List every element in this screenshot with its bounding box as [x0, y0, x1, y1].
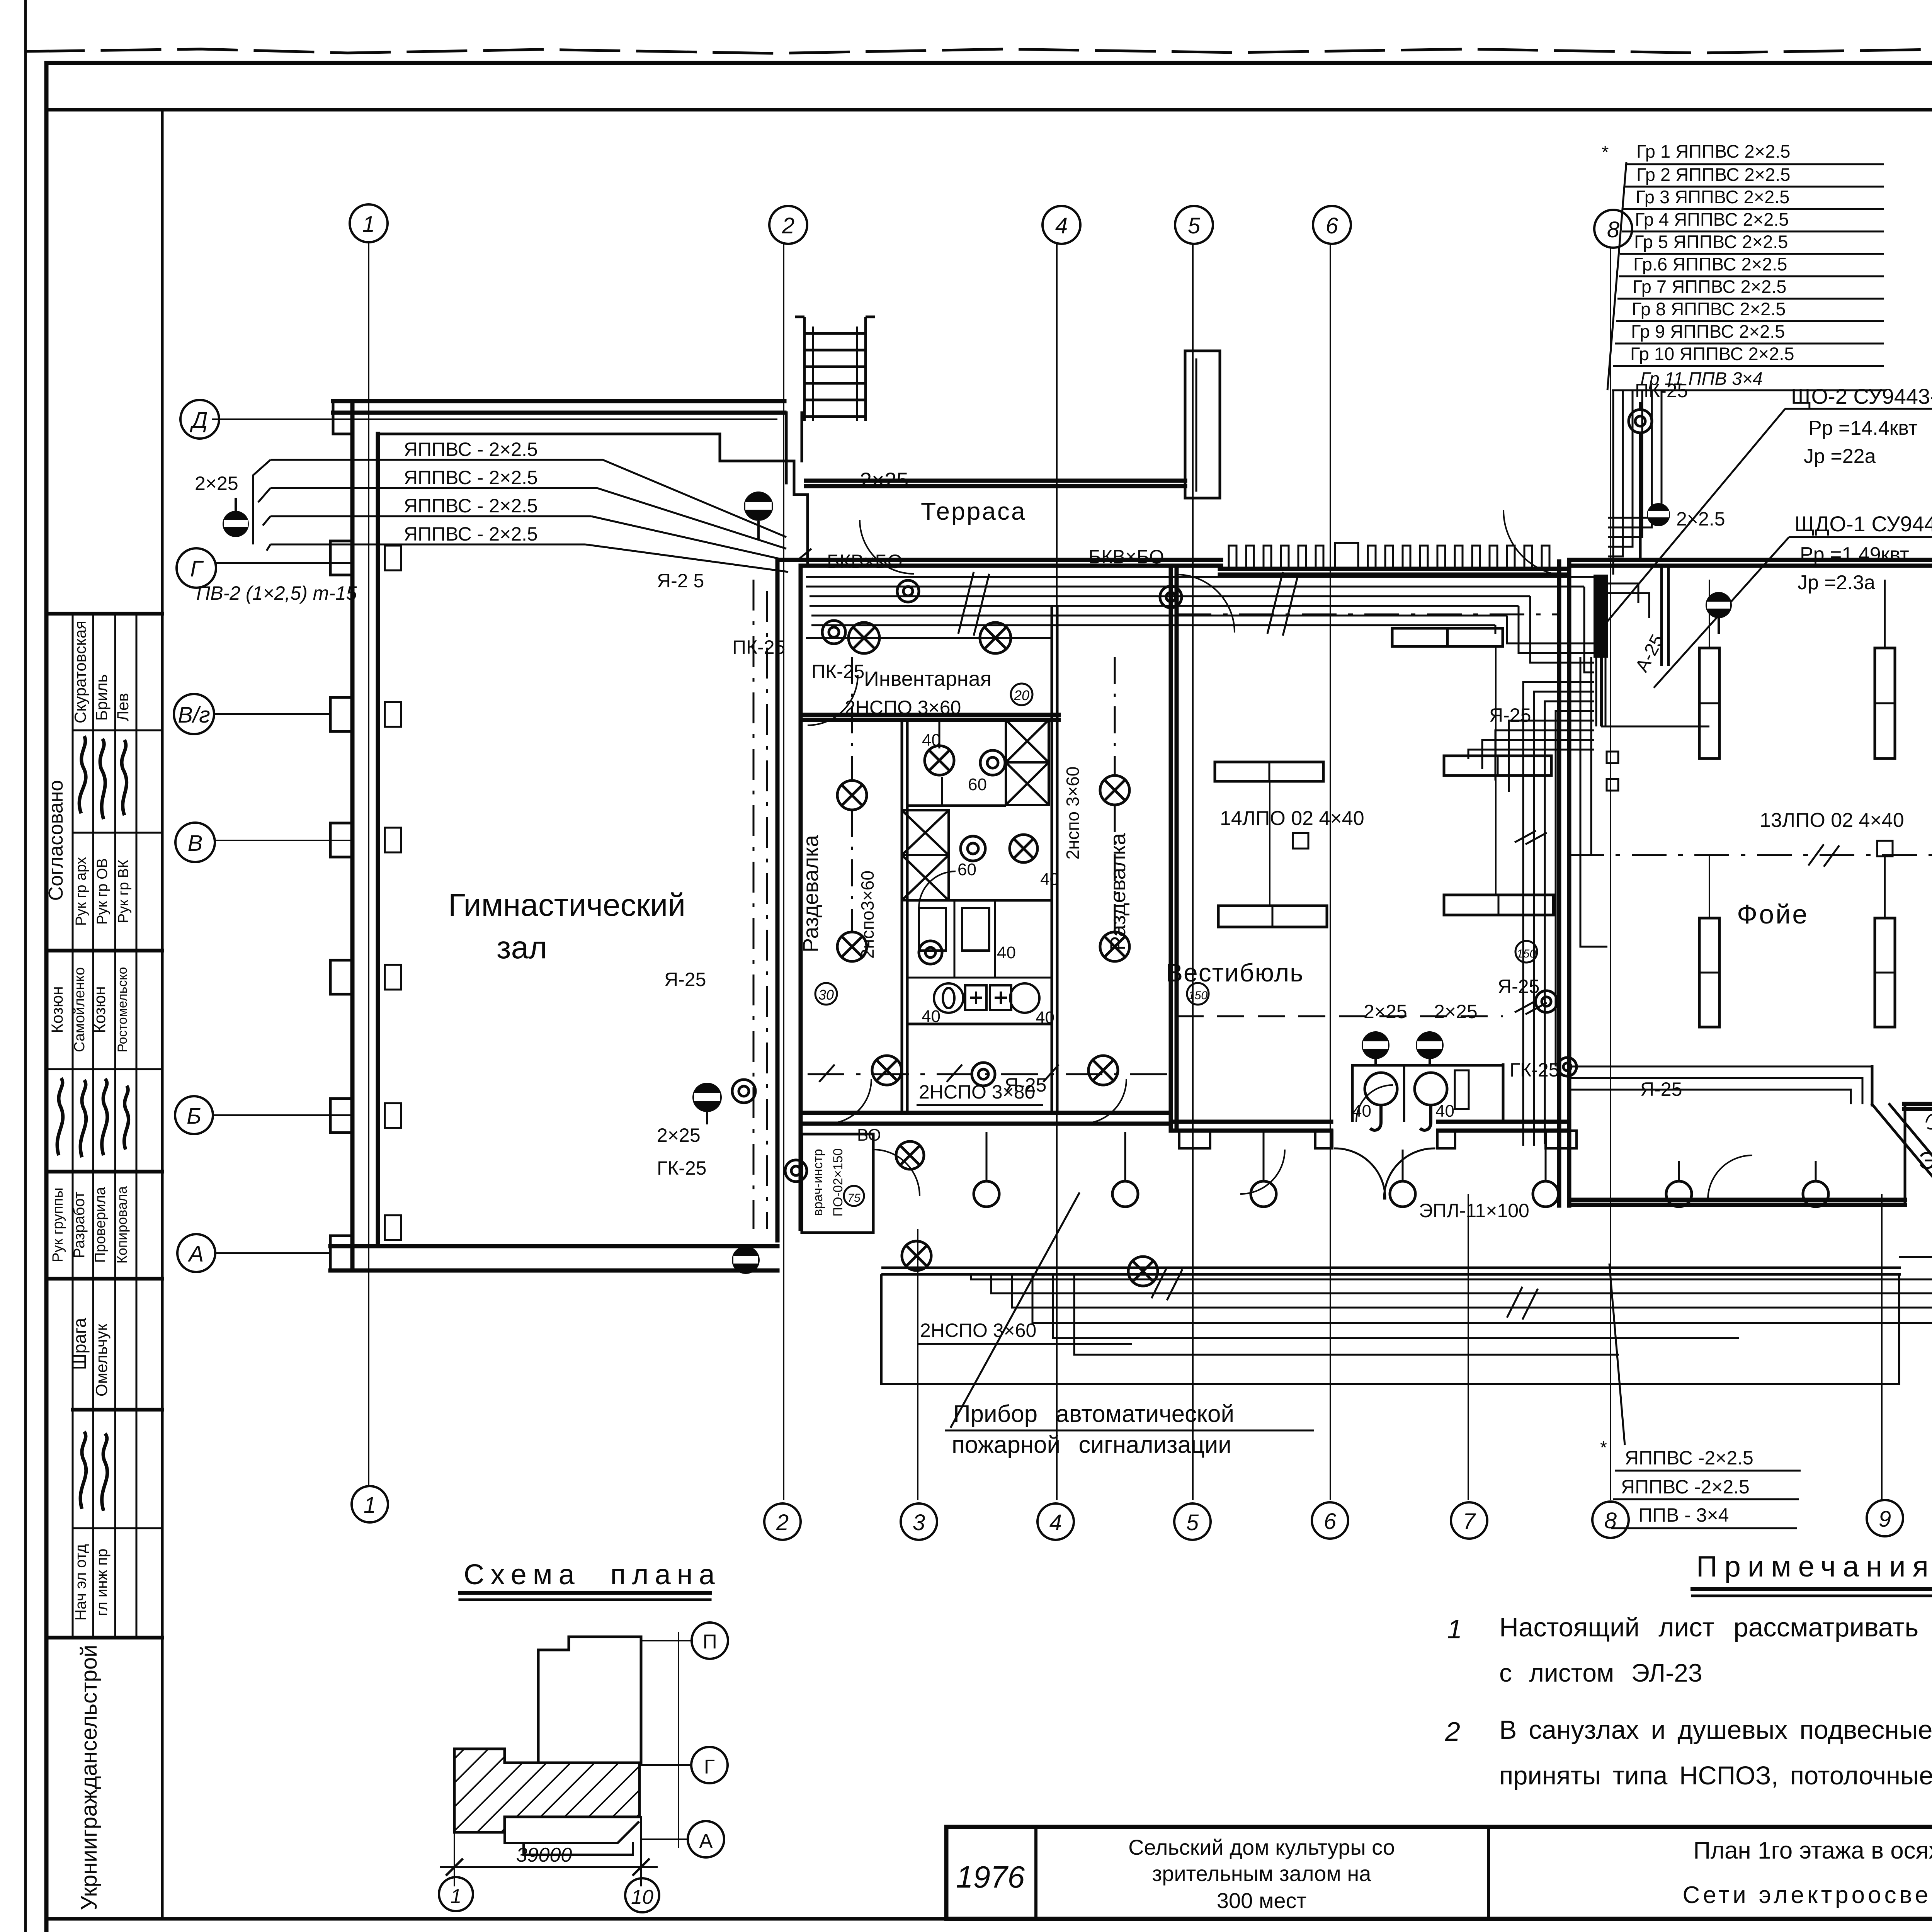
svg-text:приняты типа НСПОЗ, потолоч: приняты типа НСПОЗ, потолочные типа БУН-… — [1499, 1761, 1932, 1790]
svg-text:Бриль: Бриль — [92, 674, 111, 721]
estrada room north wall — [1904, 1102, 1932, 1106]
svg-text:ГК-25: ГК-25 — [657, 1157, 706, 1179]
sidebar table horizontals — [46, 612, 162, 616]
svg-text:Рр =1.49квт: Рр =1.49квт — [1800, 543, 1909, 566]
svg-text:Прибор автоматической: Прибор автоматической — [953, 1401, 1234, 1427]
svg-text:300 мест: 300 мест — [1217, 1888, 1306, 1913]
vestibule west wall — [1169, 569, 1173, 1131]
gym east dash-dot risers — [753, 580, 755, 1229]
svg-text:2: 2 — [782, 213, 794, 238]
svg-text:9: 9 — [1879, 1507, 1891, 1532]
vrach room bottom-left — [802, 1134, 920, 1233]
svg-text:Гр 4 ЯППВС 2×2.5: Гр 4 ЯППВС 2×2.5 — [1635, 209, 1789, 230]
svg-text:А: А — [699, 1830, 713, 1852]
label leader 2x25 top-left gym — [796, 549, 811, 561]
svg-text:Копировала: Копировала — [114, 1186, 130, 1264]
svg-text:8: 8 — [1604, 1508, 1617, 1533]
svg-text:Разработ: Разработ — [71, 1192, 88, 1259]
svg-text:Jр =22а: Jр =22а — [1804, 445, 1876, 468]
riser slope line — [1607, 162, 1626, 390]
axis A leader left — [216, 1252, 332, 1254]
svg-text:В: В — [188, 831, 203, 856]
gym south wall double — [330, 1244, 777, 1248]
feeder drop at gym west — [253, 460, 270, 551]
vestibule fluorescent row 3 — [1218, 906, 1327, 927]
ShchDO-1 leader line — [1654, 537, 1789, 688]
svg-text:ЯППВС - 2×2.5: ЯППВС - 2×2.5 — [404, 439, 538, 460]
svg-text:Нач эл отд: Нач эл отд — [72, 1544, 89, 1621]
svg-text:Козюн: Козюн — [90, 986, 109, 1033]
svg-text:1: 1 — [362, 212, 375, 237]
svg-text:БКВ×БО: БКВ×БО — [827, 551, 903, 572]
axis G leader left — [216, 562, 352, 564]
axis circle D left — [180, 400, 219, 439]
svg-text:Д: Д — [190, 408, 208, 433]
svg-text:зрительным залом на: зрительным залом на — [1152, 1861, 1372, 1886]
svg-text:Фойе: Фойе — [1737, 899, 1809, 929]
svg-text:Рук гр арх: Рук гр арх — [73, 857, 89, 926]
gym west wall double — [350, 401, 355, 1270]
axis circle A left — [177, 1234, 215, 1272]
steps outline outer — [881, 1274, 1899, 1384]
svg-text:14ЛПО 02 4×40: 14ЛПО 02 4×40 — [1220, 807, 1364, 830]
svg-text:39000: 39000 — [516, 1844, 572, 1866]
svg-text:40: 40 — [997, 943, 1016, 962]
estrada diagonal wall double — [1872, 1104, 1932, 1249]
gym feeder lines (4 x YAPPVS) — [270, 459, 603, 461]
foyer fixture risers — [1709, 580, 1710, 648]
svg-text:зал: зал — [497, 930, 547, 965]
gym west pilaster row — [330, 541, 352, 575]
switch symbols: filled circle with stripe — [223, 492, 1932, 1274]
axis 3 line — [917, 1229, 918, 1500]
svg-text:2×25: 2×25 — [1364, 1001, 1407, 1022]
svg-text:Шрага: Шрага — [70, 1318, 90, 1370]
bundle corners into panel — [1495, 587, 1594, 672]
svg-text:2НСПО 3×60: 2НСПО 3×60 — [845, 697, 961, 718]
svg-text:Рук группы: Рук группы — [50, 1187, 66, 1262]
foyer mid dash-dot — [1569, 854, 1932, 856]
door arcs south wall — [827, 1079, 1932, 1200]
porch columns — [974, 1132, 1828, 1207]
svg-text:20: 20 — [1014, 687, 1029, 703]
svg-text:Козюн: Козюн — [48, 986, 66, 1033]
sidebar rotated labels — [45, 621, 132, 1910]
axis D leader — [212, 418, 777, 420]
svg-text:ППВ - 3×4: ППВ - 3×4 — [1638, 1504, 1729, 1526]
svg-text:В санузлах и душевых подвесн: В санузлах и душевых подвесные светильни… — [1499, 1715, 1932, 1745]
PK-25 socket symbol — [1629, 402, 1652, 561]
svg-text:60: 60 — [968, 775, 987, 794]
svg-text:6: 6 — [1324, 1509, 1337, 1534]
axis V leader left — [215, 840, 352, 841]
bottom porch steps — [881, 1248, 1932, 1384]
frame inner top line — [46, 108, 1932, 112]
svg-text:Я-2 5: Я-2 5 — [657, 570, 704, 592]
estrada feed bundle — [1569, 1066, 1872, 1104]
svg-text:Терраса: Терраса — [921, 497, 1026, 525]
lamp symbols: circle with X (ceiling) — [837, 622, 1158, 1286]
svg-text:Раздевалка: Раздевалка — [798, 835, 823, 952]
svg-text:*: * — [1602, 142, 1609, 162]
svg-text:ЯППВС - 2×2.5: ЯППВС - 2×2.5 — [404, 523, 538, 545]
key plan dimension line — [454, 1832, 455, 1886]
svg-text:Рук гр ОВ: Рук гр ОВ — [94, 858, 111, 925]
svg-text:Рук гр ВК: Рук гр ВК — [116, 860, 132, 923]
svg-text:гл инж пр: гл инж пр — [94, 1549, 111, 1616]
svg-text:Я-25: Я-25 — [1005, 1074, 1046, 1096]
key plan leaders — [641, 1640, 692, 1641]
svg-text:5: 5 — [1188, 213, 1201, 238]
group list underlines — [1626, 163, 1884, 165]
sheet top torn edge dashed line — [26, 49, 1932, 54]
axis circle G left — [177, 548, 216, 588]
axis 5 line — [1192, 243, 1194, 1500]
axis circle 4 top — [1043, 206, 1080, 244]
axis 1 line — [368, 243, 369, 1487]
door arcs north area — [808, 510, 1932, 725]
svg-text:60: 60 — [957, 860, 976, 879]
svg-text:Примечания: Примечания — [1696, 1550, 1932, 1583]
svg-text:40: 40 — [922, 731, 941, 750]
north inner wall line — [378, 434, 808, 566]
changing room left east wall — [901, 720, 903, 1113]
svg-text:Гр 3 ЯППВС 2×2.5: Гр 3 ЯППВС 2×2.5 — [1636, 187, 1789, 207]
key plan porch steps — [505, 1822, 638, 1855]
svg-text:П: П — [702, 1631, 717, 1653]
axis circle 6 top — [1313, 206, 1351, 244]
svg-text:А: А — [188, 1242, 204, 1267]
svg-text:2×2.5: 2×2.5 — [1676, 508, 1725, 530]
changing room dash-dot risers — [851, 810, 853, 932]
axis circle 9 bottom — [1867, 1500, 1903, 1536]
svg-text:Гр 5 ЯППВС 2×2.5: Гр 5 ЯППВС 2×2.5 — [1634, 231, 1788, 252]
svg-text:Я-25: Я-25 — [1498, 976, 1539, 997]
svg-text:Я-25: Я-25 — [1489, 704, 1531, 726]
svg-text:150: 150 — [1188, 989, 1207, 1002]
axis circle 8 bottom — [1592, 1502, 1629, 1538]
pendant lamps in wc: open circles with hook — [1365, 1073, 1447, 1130]
bottom riser stack leader — [1609, 1264, 1625, 1445]
building north wall at axis D — [333, 399, 784, 403]
svg-text:Г: Г — [190, 556, 204, 582]
wc rooms near vestibule — [1352, 1063, 1503, 1122]
svg-text:13ЛПО 02 4×40: 13ЛПО 02 4×40 — [1760, 809, 1904, 832]
axis 9 line — [1881, 1194, 1883, 1500]
vestibule fixture riser — [1495, 646, 1497, 756]
svg-text:Проверила: Проверила — [92, 1187, 109, 1263]
axis circle V left — [175, 823, 215, 862]
svg-text:ПК-25: ПК-25 — [732, 636, 785, 658]
shower inner wall 1 — [907, 804, 1005, 807]
estrada west link wall — [1904, 1106, 1906, 1205]
foyer center square — [1877, 841, 1893, 856]
axis circle 6 bottom — [1312, 1502, 1348, 1539]
svg-text:5: 5 — [1186, 1510, 1199, 1535]
shower risers — [939, 720, 942, 806]
terrace west link wall — [785, 413, 788, 483]
sheet outer left edge line — [24, 0, 27, 1932]
switch 2x2.5 near panel — [1647, 503, 1670, 526]
svg-text:40: 40 — [1435, 1102, 1454, 1121]
sidebar right vertical line — [161, 110, 164, 1919]
vestibule center square — [1293, 833, 1308, 849]
svg-text:1: 1 — [1447, 1614, 1462, 1644]
svg-text:2НСПО 3×60: 2НСПО 3×60 — [920, 1320, 1036, 1341]
terrace pier wall — [1185, 351, 1220, 498]
svg-text:30: 30 — [818, 987, 834, 1003]
vestibule south wall — [1171, 1120, 1331, 1124]
riser hatch marks — [1515, 831, 1547, 1014]
svg-text:2: 2 — [1445, 1716, 1460, 1747]
shower inner wall 4 — [907, 977, 1052, 979]
svg-text:40: 40 — [922, 1007, 940, 1026]
svg-text:Ростомельско: Ростомельско — [115, 967, 130, 1052]
key plan auditorium rect — [538, 1637, 641, 1763]
key plan right axis line — [678, 1633, 679, 1847]
numbered circles — [815, 684, 1932, 1206]
svg-text:ЩО-2 СУ9443-12: ЩО-2 СУ9443-12 — [1791, 384, 1932, 408]
cloakroom partition — [1660, 566, 1663, 665]
ShchO-2 leader line — [1604, 409, 1785, 626]
svg-text:1: 1 — [364, 1493, 376, 1518]
svg-text:Инвентарная: Инвентарная — [864, 667, 992, 690]
svg-text:ЯППВС - 2×2.5: ЯППВС - 2×2.5 — [404, 467, 538, 488]
svg-text:Гр 2 ЯППВС 2×2.5: Гр 2 ЯППВС 2×2.5 — [1636, 164, 1790, 185]
svg-text:Раздевалка: Раздевалка — [1105, 833, 1130, 951]
vestibule east wall double — [1557, 561, 1561, 1206]
central block west wall double — [776, 561, 780, 1240]
entrance door leaves — [1335, 1148, 1385, 1199]
wall boxes on foyer west wall — [1607, 752, 1618, 763]
portico edge lines — [881, 1268, 1901, 1274]
vestibule fluorescent row 2 — [1215, 762, 1323, 781]
svg-text:Гр 1 ЯППВС 2×2.5: Гр 1 ЯППВС 2×2.5 — [1636, 141, 1790, 162]
central block south wall — [801, 1111, 1171, 1115]
svg-text:Гр 10 ЯППВС 2×2.5: Гр 10 ЯППВС 2×2.5 — [1630, 344, 1794, 364]
svg-text:ГК-25: ГК-25 — [1510, 1059, 1559, 1081]
wire count ticks — [958, 572, 1298, 636]
terrace stairs — [795, 317, 875, 421]
underline for 2NSPO 3x80 bottom — [917, 1104, 1043, 1106]
svg-text:3: 3 — [913, 1510, 925, 1535]
svg-text:Гр 9 ЯППВС 2×2.5: Гр 9 ЯППВС 2×2.5 — [1631, 321, 1785, 342]
vestibule east riser — [1523, 807, 1556, 1146]
svg-text:40: 40 — [1036, 1008, 1054, 1027]
vestibule fluorescent row 1 — [1392, 628, 1447, 646]
svg-text:ЯППВС -2×2.5: ЯППВС -2×2.5 — [1625, 1447, 1753, 1469]
riser above panel from group list — [1608, 390, 1662, 575]
axis 4 line — [1056, 243, 1058, 1500]
axis circle 5 top — [1175, 206, 1213, 244]
svg-text:2×25: 2×25 — [860, 468, 908, 492]
wc cubicles — [919, 871, 1039, 1013]
svg-text:Согласовано: Согласовано — [45, 780, 67, 901]
axis 6 line — [1330, 243, 1331, 1500]
svg-text:ПВ-2 (1×2,5) т-15: ПВ-2 (1×2,5) т-15 — [196, 582, 357, 604]
ShchO-2 panel bar — [1594, 575, 1608, 658]
svg-text:Я-25: Я-25 — [664, 969, 706, 990]
corridor top lamps wire — [806, 637, 1052, 639]
svg-text:План 1го этажа в осях „А“-„Г“: План 1го этажа в осях „А“-„Г“ — [1693, 1837, 1932, 1864]
inventory room north wall — [777, 558, 1221, 562]
svg-text:1976: 1976 — [956, 1860, 1025, 1894]
key plan axis circles П Г А — [692, 1622, 728, 1659]
axis circle V/g left — [174, 694, 214, 734]
sconce symbols: double circle — [732, 580, 1932, 1182]
svg-text:Рр =14.4квт: Рр =14.4квт — [1808, 417, 1918, 439]
sidebar table verticals — [72, 614, 74, 1638]
foyer north wall — [1569, 558, 1932, 562]
svg-text:Б: Б — [187, 1104, 201, 1129]
panel fan left-down — [1523, 682, 1594, 807]
svg-text:Гр 7 ЯППВС 2×2.5: Гр 7 ЯППВС 2×2.5 — [1633, 276, 1786, 297]
svg-text:*: * — [1600, 1437, 1607, 1458]
shower inner wall 2 — [907, 899, 1052, 902]
title block outline — [946, 1827, 1932, 1919]
svg-text:Jр =2.3а: Jр =2.3а — [1798, 571, 1875, 594]
fire alarm leader — [951, 1192, 1080, 1428]
svg-text:6: 6 — [1326, 213, 1338, 238]
gym feeder fan to terrace corner — [585, 460, 788, 572]
south corridor lamps wire — [808, 1073, 1171, 1075]
svg-text:2×25: 2×25 — [1434, 1001, 1478, 1022]
south bundle lines — [971, 1249, 1932, 1279]
shower X-boxes — [902, 720, 1049, 900]
svg-text:Г: Г — [704, 1756, 715, 1778]
axis circle 2 top — [769, 206, 807, 244]
axis 7 line — [1468, 1194, 1469, 1500]
foyer riser right of wall — [1580, 657, 1709, 947]
svg-text:150: 150 — [1517, 947, 1536, 960]
sidebar signatures scribbles — [57, 736, 129, 1511]
group 11 underline — [1612, 389, 1886, 391]
corridor bundle along vestibule north — [806, 576, 1594, 578]
svg-text:10: 10 — [631, 1886, 653, 1908]
entrance door jambs — [1315, 1131, 1332, 1148]
svg-text:4: 4 — [1049, 1510, 1062, 1535]
svg-text:2нспо 3×60: 2нспо 3×60 — [1063, 767, 1083, 860]
vestibule lamp feed dash — [1177, 1015, 1503, 1017]
foyer fluorescent fixtures row 1 — [1699, 648, 1719, 759]
axis 2 line — [783, 243, 784, 1500]
svg-text:ЩДО-1 СУ9441-14: ЩДО-1 СУ9441-14 — [1794, 512, 1932, 536]
frame inner bottom line — [46, 1917, 1932, 1921]
gym west wall radiator marks — [385, 546, 401, 570]
foyer south wall — [1569, 1198, 1905, 1202]
svg-text:БКВ×БО: БКВ×БО — [1088, 546, 1164, 568]
terrace west wall — [801, 413, 803, 461]
axis circle 3 bottom — [901, 1503, 937, 1540]
svg-text:1: 1 — [451, 1885, 462, 1908]
svg-text:ПК-25: ПК-25 — [811, 661, 864, 682]
axis V/g leader — [214, 713, 332, 715]
svg-text:4: 4 — [1055, 213, 1068, 238]
key plan bottom axis circles — [439, 1877, 473, 1911]
svg-text:40: 40 — [1352, 1102, 1371, 1121]
svg-text:В/г: В/г — [178, 702, 210, 728]
svg-text:7: 7 — [1463, 1509, 1476, 1534]
panel outgoing verticals — [1596, 390, 1662, 726]
axis circle 1 top — [350, 204, 388, 242]
shower inner wall 3 — [907, 1023, 1052, 1026]
axis circle 7 bottom — [1451, 1502, 1487, 1539]
axis B leader left — [214, 1114, 352, 1116]
terrace balustrade row — [1229, 543, 1549, 568]
axis circle 8 top — [1594, 210, 1632, 248]
key plan hatched block — [454, 1749, 639, 1832]
terrace north edge double — [806, 479, 1185, 483]
svg-text:ПО-02×150: ПО-02×150 — [831, 1148, 845, 1217]
svg-text:Схема плана: Схема плана — [464, 1558, 721, 1590]
svg-text:Эстрада -: Эстрада - — [1918, 1148, 1932, 1174]
svg-text:ВО: ВО — [857, 1126, 881, 1145]
axis circle B left — [175, 1096, 213, 1134]
svg-text:Самойленко: Самойленко — [71, 967, 88, 1052]
svg-text:2нспо3×60: 2нспо3×60 — [857, 871, 878, 959]
svg-text:8: 8 — [1607, 217, 1619, 242]
svg-text:2×25: 2×25 — [195, 473, 238, 494]
svg-text:пожарной сигнализации: пожарной сигнализации — [952, 1432, 1231, 1458]
vestibule north wall — [1220, 573, 1569, 577]
axis circle 5 bottom — [1174, 1503, 1211, 1540]
inventory room south wall — [801, 713, 1059, 717]
svg-text:Лев: Лев — [114, 693, 132, 721]
axis circle 2 bottom — [764, 1503, 801, 1540]
svg-text:ЯППВС -2×2.5: ЯППВС -2×2.5 — [1621, 1476, 1750, 1498]
foyer fluorescent fixtures row 2 — [1699, 918, 1719, 1027]
svg-text:75: 75 — [847, 1192, 861, 1204]
svg-text:Вестибюль: Вестибюль — [1166, 958, 1304, 987]
axis circle 1 bottom — [352, 1486, 388, 1522]
svg-text:Омельчук: Омельчук — [92, 1323, 111, 1396]
vestibule mid dash-dot — [1177, 614, 1559, 616]
svg-text:Настоящий лист рассматривать: Настоящий лист рассматривать совместно — [1499, 1612, 1932, 1642]
svg-text:ЯППВС - 2×2.5: ЯППВС - 2×2.5 — [404, 495, 538, 517]
svg-text:40: 40 — [1040, 870, 1059, 889]
svg-text:Гр 8 ЯППВС 2×2.5: Гр 8 ЯППВС 2×2.5 — [1632, 299, 1786, 319]
svg-text:Сети электроосвещения: Сети электроосвещения — [1682, 1882, 1932, 1908]
svg-text:ЭПЛ-11×100: ЭПЛ-11×100 — [1419, 1200, 1529, 1221]
svg-text:2: 2 — [776, 1510, 789, 1535]
svg-text:Укрнииграждансельстрой: Укрнииграждансельстрой — [77, 1645, 102, 1910]
svg-text:Гимнастический: Гимнастический — [448, 888, 685, 923]
axis 8 line — [1610, 247, 1611, 1500]
cubicle divider — [954, 902, 956, 978]
svg-text:Скуратовская: Скуратовская — [71, 621, 89, 723]
svg-text:врач-инстр: врач-инстр — [811, 1149, 825, 1216]
svg-text:Гр.6 ЯППВС 2×2.5: Гр.6 ЯППВС 2×2.5 — [1633, 254, 1787, 274]
axis circle 4 bottom — [1037, 1503, 1074, 1540]
svg-text:с листом ЭЛ-23: с листом ЭЛ-23 — [1499, 1658, 1702, 1687]
svg-text:2×25: 2×25 — [657, 1124, 701, 1146]
svg-text:Сельский дом культуры со: Сельский дом культуры со — [1128, 1835, 1395, 1859]
shower block east wall — [1051, 608, 1053, 1113]
svg-text:Я-25: Я-25 — [1640, 1078, 1682, 1100]
